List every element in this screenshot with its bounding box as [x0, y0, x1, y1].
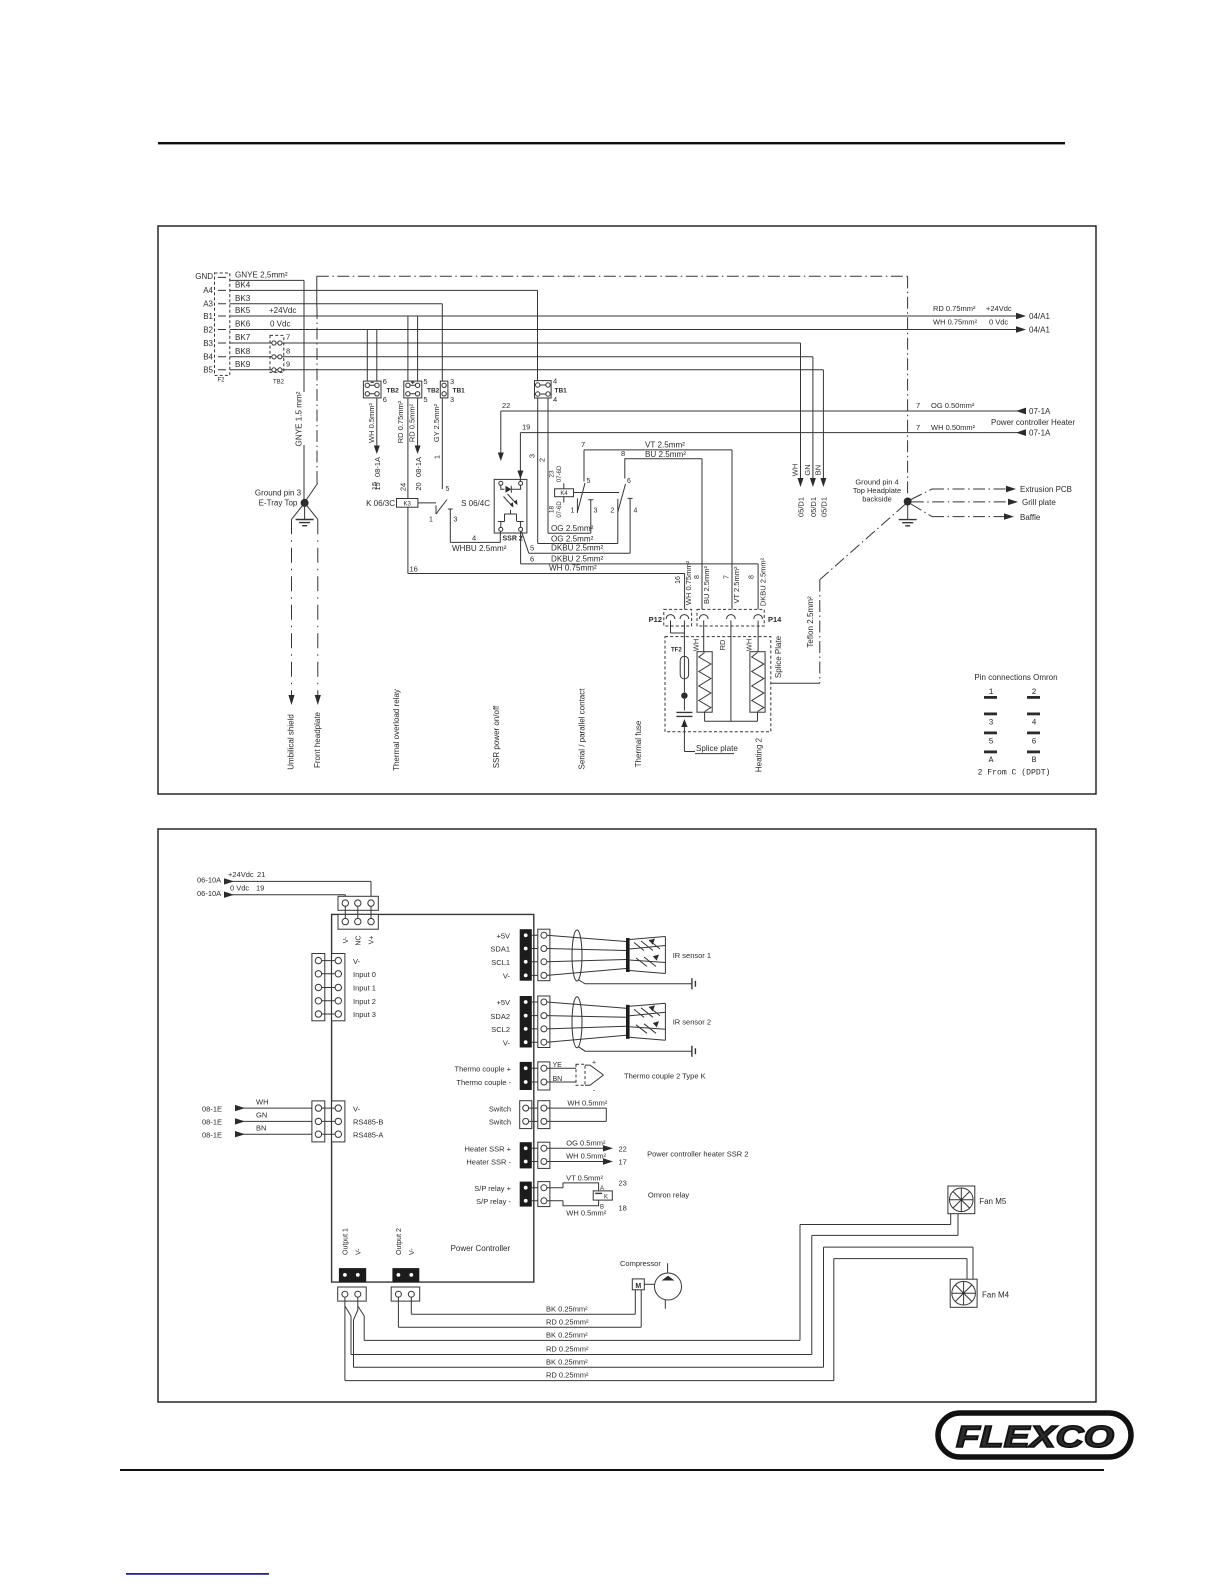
- wire BK4 drop to TB1 b: [537, 290, 539, 380]
- compressor M1: [620, 1259, 682, 1309]
- svg-text:K3: K3: [404, 501, 412, 507]
- IR1 terminal strip: [520, 929, 532, 981]
- svg-text:Extrusion PCB: Extrusion PCB: [1020, 485, 1072, 494]
- svg-text:B2: B2: [203, 325, 213, 334]
- svg-text:6: 6: [383, 395, 387, 404]
- svg-text:05/D1: 05/D1: [809, 497, 818, 517]
- svg-text:GND: GND: [195, 272, 213, 281]
- terminal block TB2 minus: [363, 377, 399, 404]
- wire K4 to contacts: [574, 492, 620, 494]
- svg-text:16: 16: [675, 576, 682, 584]
- svg-text:GN: GN: [256, 1110, 267, 1119]
- wire drop 0Vdc to TB2- right: [376, 330, 378, 382]
- wire BK 0.25mm2 compressor: [411, 1290, 635, 1315]
- connector P2: [215, 273, 230, 384]
- svg-text:WH 0.75mm²: WH 0.75mm²: [933, 318, 978, 327]
- svg-text:RD 0.75mm²: RD 0.75mm²: [396, 400, 405, 443]
- svg-text:5: 5: [446, 486, 450, 493]
- svg-text:M: M: [635, 1283, 641, 1290]
- thermo couple plug: [532, 1062, 550, 1090]
- svg-text:TB2: TB2: [387, 387, 400, 394]
- svg-text:WH: WH: [745, 639, 754, 652]
- svg-text:B1: B1: [203, 312, 213, 321]
- IR2 shield drain: [578, 1046, 695, 1057]
- svg-text:BK7: BK7: [235, 333, 251, 342]
- svg-text:23: 23: [619, 1179, 627, 1188]
- junction ground pin 3: [301, 499, 309, 507]
- wire BN from 08-1E: [202, 1124, 312, 1140]
- svg-text:V-: V-: [343, 936, 350, 943]
- svg-text:Fan M4: Fan M4: [982, 1290, 1010, 1299]
- svg-text:Compressor: Compressor: [620, 1259, 661, 1268]
- svg-text:Switch: Switch: [489, 1104, 511, 1113]
- wire OG 0.5mm2 to 22: [547, 1139, 627, 1154]
- svg-text:BK6: BK6: [235, 320, 251, 329]
- svg-text:Fan M5: Fan M5: [979, 1197, 1007, 1206]
- wire GN drop 05/D1: [803, 357, 818, 517]
- svg-text:TB2: TB2: [273, 380, 285, 386]
- thermal fuse TF2: [671, 621, 689, 693]
- svg-text:22: 22: [502, 401, 510, 410]
- svg-text:SCL2: SCL2: [491, 1025, 510, 1034]
- svg-text:5: 5: [423, 395, 427, 404]
- svg-text:Thermal overload relay: Thermal overload relay: [392, 689, 401, 771]
- svg-text:V-: V-: [409, 1248, 416, 1255]
- junction ground pin 4: [904, 498, 912, 506]
- svg-text:Heater SSR +: Heater SSR +: [465, 1145, 512, 1154]
- svg-text:7: 7: [916, 401, 920, 410]
- svg-text:VT 2.5mm²: VT 2.5mm²: [645, 440, 685, 449]
- svg-text:7: 7: [581, 440, 585, 449]
- IR1 plug: [532, 929, 550, 981]
- svg-text:2: 2: [611, 508, 615, 515]
- svg-text:6: 6: [1032, 738, 1037, 747]
- label Splice plate: [695, 744, 738, 754]
- svg-text:08-1E: 08-1E: [202, 1104, 222, 1113]
- svg-text:1: 1: [429, 517, 433, 524]
- svg-text:Input 0: Input 0: [353, 970, 376, 979]
- wire front headplate branch: [305, 503, 321, 705]
- svg-text:Omron relay: Omron relay: [648, 1191, 690, 1200]
- svg-text:A3: A3: [203, 300, 213, 309]
- svg-text:07-6D: 07-6D: [557, 501, 563, 518]
- svg-text:DKBU 2.5mm²: DKBU 2.5mm²: [551, 554, 603, 563]
- wire GN from 08-1E: [202, 1110, 312, 1126]
- svg-text:WH 0.75mm²: WH 0.75mm²: [684, 560, 693, 605]
- svg-text:08-1E: 08-1E: [202, 1130, 222, 1139]
- svg-text:0 Vdc: 0 Vdc: [270, 320, 290, 329]
- svg-text:2: 2: [538, 458, 547, 462]
- switch terminal strip: [520, 1101, 532, 1129]
- S/P relay plug: [532, 1182, 550, 1207]
- svg-text:SCL1: SCL1: [491, 958, 510, 967]
- svg-text:1: 1: [989, 688, 994, 697]
- svg-text:WH 0.75mm²: WH 0.75mm²: [549, 564, 597, 573]
- svg-text:Serial / parallel contact: Serial / parallel contact: [578, 688, 587, 770]
- svg-text:Input 1: Input 1: [353, 984, 376, 993]
- svg-text:BK 0.25mm²: BK 0.25mm²: [546, 1331, 588, 1340]
- wire BK9: [230, 360, 824, 370]
- svg-text:Thermo couple -: Thermo couple -: [456, 1078, 511, 1087]
- wire BK6 0Vdc: [230, 320, 1016, 330]
- wire drop +24 to TB2+ left / relay K3: [407, 316, 409, 499]
- wire 16 WH 0.75mm2: [408, 507, 685, 609]
- svg-text:5: 5: [423, 377, 427, 386]
- svg-text:WH 0.5mm²: WH 0.5mm²: [566, 1152, 607, 1161]
- IR2 cable: [547, 997, 626, 1048]
- svg-text:6: 6: [530, 554, 534, 563]
- svg-text:18: 18: [549, 506, 556, 514]
- svg-text:Ground pin 3: Ground pin 3: [255, 489, 302, 498]
- wire WH 0.5mm2 down arrow 15 08-1A: [367, 398, 382, 491]
- svg-text:NC: NC: [356, 935, 363, 945]
- diagram frame 1: [158, 226, 1096, 794]
- svg-text:RD 0.5mm²: RD 0.5mm²: [408, 403, 417, 442]
- wire GNYE 2,5mm2: [230, 271, 304, 501]
- svg-text:B: B: [1032, 756, 1037, 765]
- svg-text:8: 8: [694, 575, 701, 579]
- svg-text:BN: BN: [256, 1124, 266, 1133]
- svg-text:backside: backside: [862, 495, 892, 504]
- wire VT 0.5mm2: [547, 1174, 627, 1191]
- svg-text:Power controller heater SSR 2: Power controller heater SSR 2: [647, 1150, 748, 1159]
- svg-text:BU 2.5mm²: BU 2.5mm²: [645, 450, 686, 459]
- svg-text:K4: K4: [560, 491, 568, 497]
- svg-text:Thermo couple 2 Type K: Thermo couple 2 Type K: [624, 1072, 706, 1081]
- wire umbilical shield branch: [288, 503, 304, 705]
- svg-text:3: 3: [594, 508, 598, 515]
- wire 19 WH 0.50mm2 to 07-1A: [517, 423, 1051, 486]
- svg-text:GN: GN: [803, 464, 812, 475]
- svg-text:Output 2: Output 2: [396, 1228, 403, 1255]
- svg-text:22: 22: [619, 1145, 627, 1154]
- svg-text:04/A1: 04/A1: [1029, 312, 1050, 321]
- svg-text:V-: V-: [353, 957, 361, 966]
- svg-text:Thermo couple +: Thermo couple +: [455, 1065, 512, 1074]
- svg-text:07-1A: 07-1A: [1029, 407, 1051, 416]
- svg-text:B5: B5: [203, 366, 213, 375]
- terminal block TB2 plus: [404, 377, 440, 404]
- svg-text:DKBU 2.5mm²: DKBU 2.5mm²: [551, 544, 603, 553]
- wire 7 VT 2.5mm2: [581, 440, 732, 609]
- svg-text:Thermal fuse: Thermal fuse: [634, 720, 643, 767]
- svg-text:6: 6: [627, 478, 631, 485]
- svg-text:3: 3: [450, 395, 454, 404]
- wire BK7: [230, 333, 801, 343]
- wire WH from 08-1E: [202, 1098, 312, 1114]
- wire WHBU 2.5mm2: [450, 531, 506, 553]
- wire 5 DKBU 2.5mm2: [522, 532, 631, 554]
- svg-text:FLEXCO: FLEXCO: [956, 1419, 1114, 1454]
- svg-text:Power Controller: Power Controller: [451, 1244, 511, 1253]
- svg-text:4: 4: [553, 376, 557, 385]
- svg-text:K: K: [604, 1194, 608, 1200]
- svg-text:+24Vdc: +24Vdc: [228, 870, 254, 879]
- svg-text:+: +: [592, 1060, 596, 1067]
- svg-text:06-10A: 06-10A: [197, 876, 221, 885]
- svg-text:RD: RD: [718, 639, 727, 650]
- svg-text:V+: V+: [369, 936, 376, 945]
- svg-text:04/A1: 04/A1: [1029, 326, 1050, 335]
- svg-text:SDA1: SDA1: [490, 945, 510, 954]
- S/P relay terminal strip: [520, 1182, 532, 1207]
- svg-text:4: 4: [634, 508, 638, 515]
- svg-text:23: 23: [549, 470, 556, 478]
- svg-text:05/D1: 05/D1: [797, 497, 806, 517]
- svg-text:OG 0.50mm²: OG 0.50mm²: [931, 401, 975, 410]
- svg-text:V-: V-: [503, 1038, 511, 1047]
- svg-text:Switch: Switch: [489, 1118, 511, 1127]
- wire to Grill plate: [912, 498, 1057, 507]
- solid state relay SSR2: [461, 479, 527, 542]
- svg-text:7: 7: [916, 423, 920, 432]
- svg-text:RD 0.25mm²: RD 0.25mm²: [546, 1317, 589, 1326]
- svg-text:S/P relay -: S/P relay -: [476, 1197, 511, 1206]
- svg-text:WH 0.5mm²: WH 0.5mm²: [567, 1098, 608, 1107]
- IR2 plug: [532, 996, 550, 1048]
- svg-text:2: 2: [1032, 688, 1037, 697]
- svg-text:24: 24: [399, 483, 408, 491]
- power controller outline: [332, 914, 534, 1282]
- relay K4: [549, 465, 574, 518]
- svg-text:A: A: [989, 756, 994, 765]
- svg-text:3: 3: [989, 719, 994, 728]
- svg-text:7: 7: [724, 575, 731, 579]
- wire to Extrusion PCB: [911, 485, 1072, 499]
- svg-text:SSR power on/off: SSR power on/off: [492, 705, 501, 768]
- svg-text:RS485-B: RS485-B: [353, 1118, 383, 1127]
- svg-text:S 06/4C: S 06/4C: [461, 499, 490, 508]
- svg-text:+24Vdc: +24Vdc: [986, 304, 1012, 313]
- svg-text:VT 0.5mm²: VT 0.5mm²: [566, 1174, 603, 1183]
- wire BK5 +24Vdc: [230, 306, 1016, 316]
- wire RD 0.5mm2 down arrow 20 08-1A: [408, 316, 424, 491]
- svg-text:8: 8: [621, 449, 625, 458]
- RS485 connector: [312, 1101, 345, 1142]
- svg-text:WH 0.5mm²: WH 0.5mm²: [367, 403, 376, 444]
- heater SSR plug: [532, 1142, 550, 1168]
- svg-text:8: 8: [286, 346, 290, 355]
- shield boundary right drop: [907, 276, 909, 496]
- thermal contact S1: [418, 486, 458, 542]
- svg-text:+24Vdc: +24Vdc: [269, 306, 296, 315]
- svg-text:TF2: TF2: [671, 648, 682, 654]
- wire 6 DKBU 2.5mm2: [521, 531, 759, 609]
- thermo couple terminal strip: [520, 1062, 532, 1090]
- svg-text:TB1: TB1: [555, 387, 568, 394]
- heater SSR terminal strip: [520, 1142, 532, 1168]
- svg-text:BK 0.25mm²: BK 0.25mm²: [546, 1357, 588, 1366]
- svg-text:B3: B3: [203, 339, 213, 348]
- svg-text:K 06/3C: K 06/3C: [366, 499, 395, 508]
- svg-text:16: 16: [410, 565, 418, 574]
- wire RD 0.25mm2 fan M4: [345, 1259, 967, 1381]
- svg-text:BK4: BK4: [235, 281, 251, 290]
- wire BN thermo: [547, 1076, 576, 1083]
- footnote blue line: [126, 1573, 269, 1575]
- input connector: [312, 954, 345, 1021]
- svg-text:1: 1: [433, 455, 442, 459]
- svg-text:BK 0.25mm²: BK 0.25mm²: [546, 1304, 588, 1313]
- arrow 04/A1 +24Vdc: [933, 304, 1050, 321]
- svg-text:TB1: TB1: [453, 387, 466, 394]
- connector P14: [697, 609, 782, 626]
- svg-text:08-1E: 08-1E: [202, 1118, 222, 1127]
- terminal block TB1 b: [535, 376, 568, 404]
- wire WH 0.5mm2 to 17: [547, 1152, 627, 1167]
- output 1 plug: [338, 1287, 367, 1301]
- wire BK8: [230, 347, 813, 357]
- terminal block TB2 dashed: [270, 335, 285, 385]
- svg-text:F2: F2: [217, 378, 225, 384]
- svg-text:0 Vdc: 0 Vdc: [989, 318, 1008, 327]
- FLEXCO logo: [938, 1413, 1131, 1457]
- svg-text:4: 4: [472, 533, 476, 542]
- IR sensor 1 symbol: [626, 937, 665, 974]
- svg-text:Pin connections Omron: Pin connections Omron: [974, 673, 1057, 682]
- svg-text:E-Tray Top: E-Tray Top: [259, 499, 298, 508]
- wire Teflon 2.5mm2: [771, 504, 906, 683]
- connector P12: [649, 609, 692, 626]
- svg-text:RD 0.75mm²: RD 0.75mm²: [933, 304, 976, 313]
- svg-text:OG 0.5mm²: OG 0.5mm²: [566, 1139, 606, 1148]
- thermo couple 2 probe: [576, 1060, 604, 1095]
- svg-text:05/D1: 05/D1: [820, 497, 829, 517]
- svg-text:WH 0.50mm²: WH 0.50mm²: [931, 423, 976, 432]
- wire WH 0.5mm2 switch loop: [547, 1098, 608, 1121]
- svg-text:B4: B4: [203, 353, 213, 362]
- top horizontal rule: [158, 142, 1065, 144]
- svg-text:GY 2.5mm²: GY 2.5mm²: [432, 403, 441, 442]
- wire BK3: [230, 294, 442, 304]
- svg-text:4: 4: [1032, 719, 1037, 728]
- contact S/P switch B: [611, 459, 638, 554]
- IR1 cable: [547, 930, 626, 981]
- power supply connector: [338, 896, 378, 945]
- wire to Baffle: [911, 504, 1041, 522]
- svg-text:BU 2.5mm²: BU 2.5mm²: [702, 566, 711, 604]
- svg-text:07-1A: 07-1A: [1029, 429, 1051, 438]
- wire RD 0.25mm2 fan M5: [345, 1214, 958, 1355]
- svg-text:5: 5: [587, 478, 591, 485]
- svg-text:21: 21: [257, 870, 265, 879]
- svg-text:5: 5: [989, 738, 994, 747]
- svg-text:Input 3: Input 3: [353, 1010, 376, 1019]
- svg-text:GNYE 1.5 mm²: GNYE 1.5 mm²: [295, 391, 304, 446]
- splice ground bars: [676, 699, 695, 752]
- IR1 shield drain: [578, 978, 695, 989]
- svg-text:15: 15: [370, 482, 379, 490]
- fan M5: [948, 1186, 975, 1214]
- shield boundary dash-dot: [305, 276, 908, 502]
- IR2 terminal strip: [520, 996, 532, 1048]
- svg-text:5: 5: [530, 544, 534, 553]
- svg-text:IR sensor 2: IR sensor 2: [673, 1018, 711, 1027]
- svg-text:WH 0.5mm²: WH 0.5mm²: [566, 1209, 607, 1218]
- svg-text:Front headplate: Front headplate: [313, 711, 322, 768]
- svg-text:8: 8: [749, 575, 756, 579]
- svg-text:P14: P14: [768, 615, 782, 624]
- output 2 terminal strip: [392, 1228, 419, 1282]
- svg-text:Splice Plate: Splice Plate: [774, 635, 783, 678]
- splice plate box: [665, 637, 771, 732]
- diagram frame 2: [158, 829, 1096, 1402]
- svg-text:V-: V-: [356, 1248, 363, 1255]
- wire BK4: [230, 281, 538, 291]
- svg-text:VT 2.5mm²: VT 2.5mm²: [732, 566, 741, 603]
- svg-text:A4: A4: [203, 286, 213, 295]
- wire drop 0Vdc to TB2- left: [366, 330, 368, 382]
- wire YE: [547, 1062, 576, 1069]
- svg-text:SSR 2: SSR 2: [503, 535, 523, 542]
- svg-text:RS485-A: RS485-A: [353, 1130, 383, 1139]
- wire +24Vdc 21 from 06-10A: [197, 870, 371, 896]
- svg-text:08-1A: 08-1A: [414, 457, 423, 477]
- svg-text:6: 6: [383, 377, 387, 386]
- wire BN drop 05/D1: [814, 370, 829, 517]
- wire RD 0.25mm2 compressor: [398, 1290, 641, 1327]
- arrow 04/A1 0Vdc: [933, 318, 1050, 335]
- heater element R-WH2: [750, 621, 765, 722]
- svg-text:07-6D: 07-6D: [557, 465, 563, 482]
- pin connections Omron chart: [974, 673, 1057, 778]
- ground symbol E-tray: [296, 505, 314, 526]
- output 1 terminal strip: [339, 1228, 366, 1282]
- relay K3: [366, 482, 418, 508]
- wire OG 2.5mm2 a: [538, 398, 594, 533]
- svg-text:+5V: +5V: [496, 931, 510, 940]
- svg-text:Umbilical shield: Umbilical shield: [287, 714, 296, 770]
- svg-text:WH: WH: [791, 464, 800, 477]
- svg-text:DKBU 2.5mm²: DKBU 2.5mm²: [759, 557, 768, 606]
- svg-text:19: 19: [522, 423, 530, 432]
- svg-text:BK8: BK8: [235, 347, 251, 356]
- svg-text:BK9: BK9: [235, 360, 251, 369]
- svg-text:Input 2: Input 2: [353, 997, 376, 1006]
- wire WH drop 05/D1: [791, 343, 806, 517]
- svg-text:Baffle: Baffle: [1020, 513, 1041, 522]
- svg-text:19: 19: [256, 883, 264, 892]
- ground symbol headplate: [899, 505, 917, 526]
- svg-text:V-: V-: [353, 1104, 361, 1113]
- svg-text:IR sensor 1: IR sensor 1: [673, 951, 711, 960]
- svg-text:S/P relay +: S/P relay +: [474, 1184, 511, 1193]
- svg-text:3: 3: [454, 517, 458, 524]
- wire 8 BU 2.5mm2: [621, 449, 702, 609]
- omron relay K: [593, 1186, 612, 1211]
- ground pin 4 label: [853, 478, 901, 504]
- svg-text:17: 17: [619, 1158, 627, 1167]
- contact S/P switch A: [571, 450, 598, 533]
- svg-text:08-1A: 08-1A: [373, 457, 382, 477]
- svg-text:Output 1: Output 1: [343, 1228, 350, 1255]
- svg-text:Heater SSR -: Heater SSR -: [466, 1158, 511, 1167]
- svg-text:YE: YE: [553, 1062, 563, 1069]
- svg-text:Teflon 2.5mm²: Teflon 2.5mm²: [806, 596, 815, 648]
- svg-text:WH: WH: [692, 639, 701, 652]
- svg-text:9: 9: [286, 359, 290, 368]
- svg-text:06-10A: 06-10A: [197, 889, 221, 898]
- svg-text:SDA2: SDA2: [490, 1012, 510, 1021]
- wire GY 2.5mm2: [432, 304, 442, 489]
- terminal block TB1 a: [440, 377, 465, 404]
- svg-text:A: A: [600, 1186, 604, 1192]
- svg-text:RD 0.25mm²: RD 0.25mm²: [546, 1345, 589, 1354]
- wire BK 0.25mm2 fan M5: [358, 1214, 951, 1341]
- svg-text:+5V: +5V: [496, 998, 510, 1007]
- wire 22 OG 0.50mm2 to 07-1A: [498, 401, 1051, 461]
- svg-text:Heating 2: Heating 2: [755, 737, 764, 772]
